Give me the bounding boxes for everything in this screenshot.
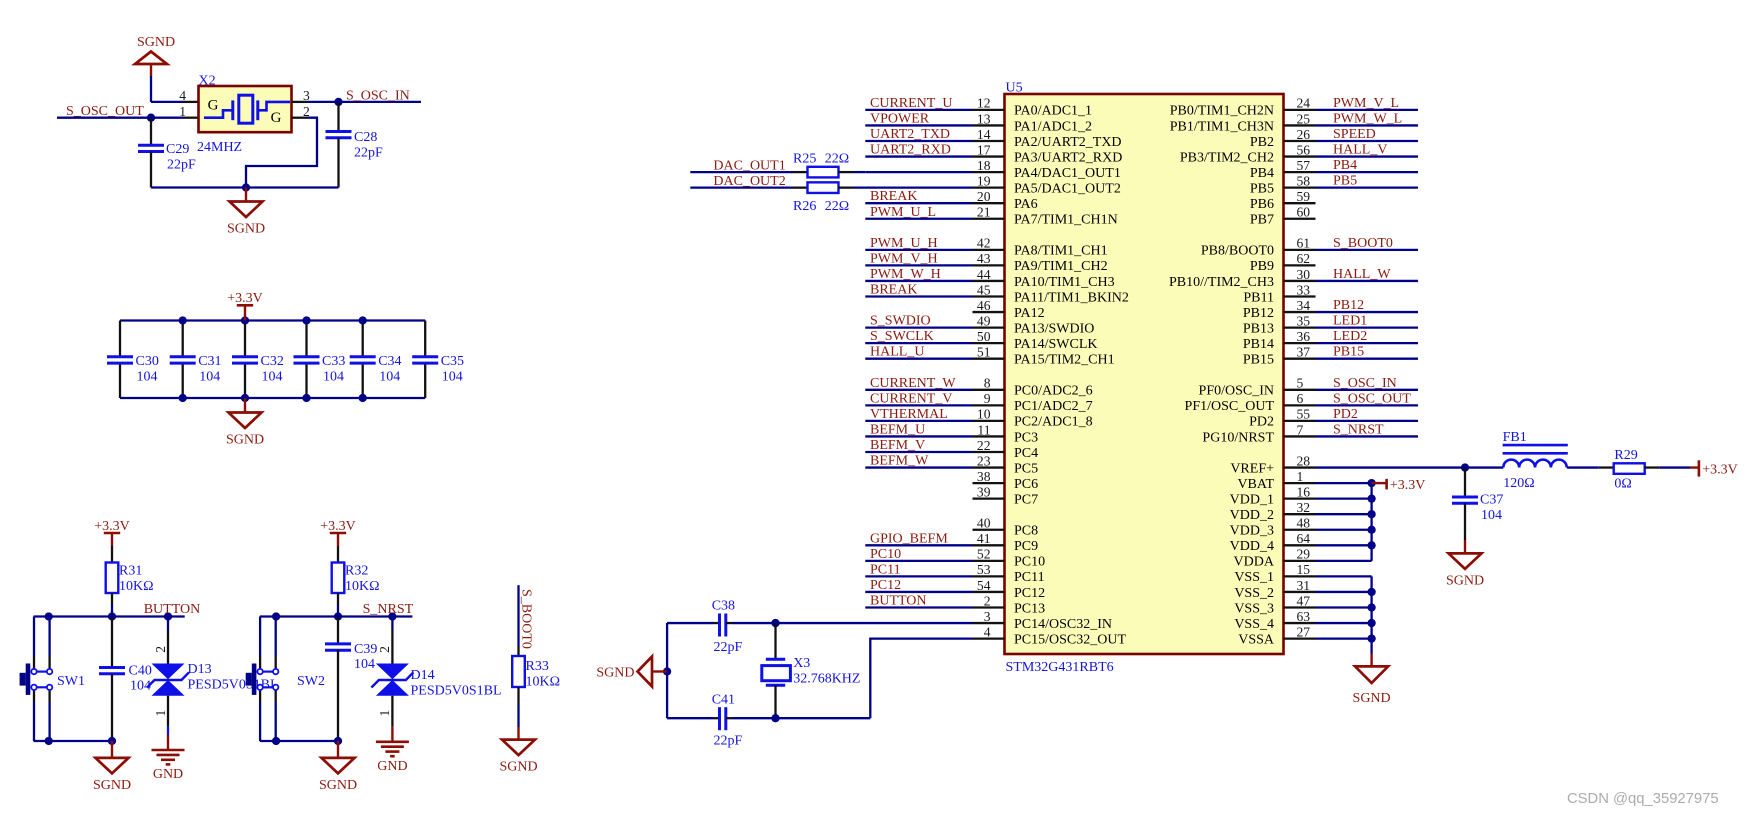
svg-text:32: 32 [1297,500,1311,515]
svg-text:HALL_V: HALL_V [1333,143,1387,158]
svg-text:PC1/ADC2_7: PC1/ADC2_7 [1014,399,1093,414]
svg-text:S_SWDIO: S_SWDIO [870,314,931,329]
svg-text:33: 33 [1297,282,1311,297]
svg-text:GND: GND [377,759,407,774]
svg-text:PF1/OSC_OUT: PF1/OSC_OUT [1185,399,1275,414]
svg-text:CURRENT_U: CURRENT_U [870,96,952,111]
svg-text:CURRENT_V: CURRENT_V [870,391,952,406]
svg-text:PC14/OSC32_IN: PC14/OSC32_IN [1014,617,1112,632]
svg-text:PC2/ADC1_8: PC2/ADC1_8 [1014,415,1093,430]
svg-text:6: 6 [1297,391,1304,406]
svg-text:CSDN @qq_35927975: CSDN @qq_35927975 [1567,791,1719,807]
svg-text:11: 11 [977,422,990,437]
svg-text:PA8/TIM1_CH1: PA8/TIM1_CH1 [1014,244,1108,259]
svg-text:PWM_U_L: PWM_U_L [870,205,936,220]
svg-text:VSS_1: VSS_1 [1234,570,1274,585]
svg-text:25: 25 [1297,111,1311,126]
svg-text:PA15/TIM2_CH1: PA15/TIM2_CH1 [1014,353,1115,368]
svg-text:PD2: PD2 [1249,415,1274,430]
svg-text:10KΩ: 10KΩ [526,674,561,689]
svg-text:D14: D14 [411,668,435,683]
svg-text:PB4: PB4 [1333,158,1357,173]
svg-text:104: 104 [354,657,375,672]
svg-text:PA9/TIM1_CH2: PA9/TIM1_CH2 [1014,259,1108,274]
svg-text:22Ω: 22Ω [825,199,849,214]
svg-text:PB7: PB7 [1250,213,1274,228]
svg-text:23: 23 [977,453,991,468]
svg-text:PC12: PC12 [1014,586,1045,601]
svg-text:51: 51 [977,345,991,360]
svg-text:PA3/UART2_RXD: PA3/UART2_RXD [1014,150,1122,165]
svg-text:BEFM_V: BEFM_V [870,438,925,453]
svg-text:C29: C29 [166,142,189,157]
svg-text:50: 50 [977,329,991,344]
svg-text:SGND: SGND [137,35,175,50]
svg-text:C39: C39 [354,642,377,657]
svg-text:PB15: PB15 [1333,345,1364,360]
svg-text:UART2_TXD: UART2_TXD [870,127,950,142]
svg-text:VPOWER: VPOWER [870,111,930,126]
svg-text:VDDA: VDDA [1234,555,1275,570]
svg-text:GND: GND [153,767,183,782]
svg-text:PC15/OSC32_OUT: PC15/OSC32_OUT [1014,632,1126,647]
svg-text:31: 31 [1297,578,1311,593]
svg-text:PA13/SWDIO: PA13/SWDIO [1014,321,1094,336]
svg-text:FB1: FB1 [1503,430,1527,445]
svg-text:PA10/TIM1_CH3: PA10/TIM1_CH3 [1014,275,1115,290]
svg-text:LED2: LED2 [1333,329,1367,344]
svg-text:58: 58 [1297,173,1311,188]
svg-text:VDD_2: VDD_2 [1230,508,1274,523]
svg-text:PB14: PB14 [1243,337,1274,352]
svg-text:PC0/ADC2_6: PC0/ADC2_6 [1014,384,1093,399]
svg-text:16: 16 [1297,484,1311,499]
svg-text:PC3: PC3 [1014,430,1038,445]
svg-text:21: 21 [977,205,991,220]
svg-text:40: 40 [977,516,991,531]
svg-text:SW1: SW1 [57,674,85,689]
svg-text:38: 38 [977,469,991,484]
svg-text:PWM_W_H: PWM_W_H [870,267,941,282]
svg-text:PC11: PC11 [870,562,901,577]
svg-text:1: 1 [1297,469,1304,484]
svg-text:VSS_4: VSS_4 [1234,617,1274,632]
svg-text:S_OSC_OUT: S_OSC_OUT [66,104,144,119]
svg-text:45: 45 [977,282,991,297]
svg-text:PA5/DAC1_OUT2: PA5/DAC1_OUT2 [1014,181,1121,196]
svg-text:PA11/TIM1_BKIN2: PA11/TIM1_BKIN2 [1014,290,1129,305]
svg-text:PC8: PC8 [1014,524,1038,539]
svg-text:PC12: PC12 [870,578,901,593]
svg-text:37: 37 [1297,345,1311,360]
svg-text:20: 20 [977,189,991,204]
svg-text:4: 4 [984,624,991,639]
svg-text:46: 46 [977,298,991,313]
svg-text:PB1/TIM1_CH3N: PB1/TIM1_CH3N [1170,119,1274,134]
svg-text:S_NRST: S_NRST [363,602,414,617]
svg-text:64: 64 [1297,531,1311,546]
svg-text:104: 104 [199,370,220,385]
svg-text:C40: C40 [129,664,152,679]
svg-text:PB5: PB5 [1333,174,1357,189]
svg-text:24MHZ: 24MHZ [197,140,242,155]
svg-text:22pF: 22pF [354,146,383,161]
svg-text:36: 36 [1297,329,1311,344]
svg-text:43: 43 [977,251,991,266]
svg-text:PB4: PB4 [1250,166,1274,181]
svg-text:C34: C34 [378,354,401,369]
svg-text:S_OSC_IN: S_OSC_IN [1333,376,1397,391]
svg-text:34: 34 [1297,298,1311,313]
svg-text:SW2: SW2 [297,674,325,689]
svg-text:VDD_1: VDD_1 [1230,492,1274,507]
svg-text:PB6: PB6 [1250,197,1274,212]
svg-text:9: 9 [984,391,991,406]
svg-text:UART2_RXD: UART2_RXD [870,143,951,158]
svg-text:C32: C32 [261,354,284,369]
svg-text:53: 53 [977,562,991,577]
svg-text:26: 26 [1297,127,1311,142]
svg-text:PWM_V_L: PWM_V_L [1333,96,1399,111]
svg-text:2: 2 [153,646,168,653]
svg-text:PD2: PD2 [1333,407,1358,422]
svg-text:S_OSC_OUT: S_OSC_OUT [1333,391,1411,406]
svg-text:104: 104 [1481,508,1502,523]
svg-text:SGND: SGND [226,433,264,448]
svg-text:PA0/ADC1_1: PA0/ADC1_1 [1014,104,1092,119]
svg-text:HALL_W: HALL_W [1333,267,1391,282]
svg-text:13: 13 [977,111,991,126]
svg-text:PWM_W_L: PWM_W_L [1333,111,1402,126]
svg-text:HALL_U: HALL_U [870,345,924,360]
svg-text:PB5: PB5 [1250,181,1274,196]
svg-text:R26: R26 [793,199,816,214]
svg-text:1: 1 [377,710,392,717]
svg-text:S_SWCLK: S_SWCLK [870,329,934,344]
svg-text:C41: C41 [712,692,735,707]
svg-text:+3.3V: +3.3V [1702,462,1738,477]
svg-text:14: 14 [977,127,991,142]
svg-text:C38: C38 [712,599,735,614]
svg-text:41: 41 [977,531,991,546]
svg-text:22pF: 22pF [714,640,743,655]
svg-text:VSSA: VSSA [1238,632,1275,647]
svg-text:49: 49 [977,313,991,328]
svg-text:X3: X3 [793,656,810,671]
svg-text:10: 10 [977,407,991,422]
svg-text:59: 59 [1297,189,1311,204]
svg-text:C28: C28 [354,130,377,145]
svg-text:VDD_4: VDD_4 [1230,539,1274,554]
svg-text:PB13: PB13 [1243,321,1274,336]
svg-text:28: 28 [1297,453,1311,468]
svg-text:PC13: PC13 [1014,601,1045,616]
svg-text:5: 5 [1297,376,1304,391]
svg-text:PB0/TIM1_CH2N: PB0/TIM1_CH2N [1170,104,1274,119]
svg-text:104: 104 [262,370,283,385]
svg-text:42: 42 [977,236,991,251]
svg-text:56: 56 [1297,142,1311,157]
svg-text:S_OSC_IN: S_OSC_IN [346,88,410,103]
svg-text:22pF: 22pF [714,733,743,748]
svg-text:22Ω: 22Ω [825,151,849,166]
svg-text:15: 15 [1297,562,1311,577]
svg-text:PB10//TIM2_CH3: PB10//TIM2_CH3 [1169,275,1274,290]
svg-text:SGND: SGND [1353,691,1391,706]
svg-text:4: 4 [179,88,186,103]
svg-text:PC4: PC4 [1014,446,1038,461]
svg-text:+3.3V: +3.3V [1390,478,1426,493]
svg-text:61: 61 [1297,236,1311,251]
svg-text:S_NRST: S_NRST [1333,422,1384,437]
svg-text:PF0/OSC_IN: PF0/OSC_IN [1199,384,1274,399]
svg-text:29: 29 [1297,547,1311,562]
svg-text:55: 55 [1297,407,1311,422]
svg-text:1: 1 [179,104,186,119]
svg-text:G: G [208,98,219,114]
svg-text:PB9: PB9 [1250,259,1274,274]
svg-text:0Ω: 0Ω [1614,476,1631,491]
svg-text:PG10/NRST: PG10/NRST [1202,430,1274,445]
svg-text:2: 2 [377,646,392,653]
svg-text:PB2: PB2 [1250,135,1274,150]
svg-text:CURRENT_W: CURRENT_W [870,376,956,391]
svg-text:PESD5V0S1BL: PESD5V0S1BL [411,683,502,698]
svg-text:PA6: PA6 [1014,197,1038,212]
svg-text:PA4/DAC1_OUT1: PA4/DAC1_OUT1 [1014,166,1121,181]
svg-text:PB15: PB15 [1243,353,1274,368]
svg-text:PWM_U_H: PWM_U_H [870,236,938,251]
svg-text:C33: C33 [322,354,345,369]
svg-text:VREF+: VREF+ [1230,461,1274,476]
svg-text:R29: R29 [1614,448,1637,463]
svg-text:57: 57 [1297,158,1311,173]
svg-text:48: 48 [1297,516,1311,531]
svg-text:104: 104 [379,370,400,385]
svg-text:PC10: PC10 [870,547,901,562]
svg-text:C37: C37 [1480,492,1503,507]
svg-text:R33: R33 [526,659,549,674]
svg-text:PC6: PC6 [1014,477,1038,492]
svg-text:10KΩ: 10KΩ [119,579,154,594]
svg-text:VSS_3: VSS_3 [1234,601,1274,616]
svg-text:VDD_3: VDD_3 [1230,524,1274,539]
svg-text:62: 62 [1297,251,1311,266]
svg-text:R25: R25 [793,151,816,166]
svg-text:104: 104 [442,370,463,385]
svg-text:BUTTON: BUTTON [870,594,927,609]
svg-text:SGND: SGND [319,778,357,793]
svg-text:STM32G431RBT6: STM32G431RBT6 [1006,660,1114,675]
svg-text:R31: R31 [119,563,142,578]
svg-text:PC5: PC5 [1014,461,1038,476]
svg-text:1: 1 [153,710,168,717]
svg-text:PA1/ADC1_2: PA1/ADC1_2 [1014,119,1092,134]
svg-text:27: 27 [1297,624,1311,639]
svg-text:22: 22 [977,438,991,453]
svg-text:47: 47 [1297,593,1311,608]
svg-text:G: G [271,110,282,126]
svg-text:C35: C35 [441,354,464,369]
svg-text:X2: X2 [199,74,216,89]
svg-text:S_BOOT0: S_BOOT0 [519,589,534,649]
svg-text:PC9: PC9 [1014,539,1038,554]
svg-text:PWM_V_H: PWM_V_H [870,251,938,266]
svg-text:BREAK: BREAK [870,283,917,298]
svg-text:SGND: SGND [1446,573,1484,588]
svg-text:SPEED: SPEED [1333,127,1376,142]
svg-text:PESD5V0S1BL: PESD5V0S1BL [188,678,279,693]
svg-text:30: 30 [1297,267,1311,282]
svg-text:60: 60 [1297,205,1311,220]
svg-text:LED1: LED1 [1333,314,1367,329]
svg-text:PB3/TIM2_CH2: PB3/TIM2_CH2 [1180,150,1274,165]
svg-text:104: 104 [137,370,158,385]
svg-text:12: 12 [977,96,991,111]
svg-text:R32: R32 [345,563,368,578]
svg-text:PC7: PC7 [1014,492,1038,507]
svg-text:SGND: SGND [596,665,634,680]
svg-text:8: 8 [984,376,991,391]
svg-text:PC11: PC11 [1014,570,1045,585]
svg-text:SGND: SGND [227,222,265,237]
svg-text:39: 39 [977,484,991,499]
svg-text:VTHERMAL: VTHERMAL [870,407,948,422]
svg-text:19: 19 [977,173,991,188]
svg-text:C30: C30 [136,354,159,369]
svg-text:54: 54 [977,578,991,593]
svg-text:17: 17 [977,142,991,157]
svg-text:S_BOOT0: S_BOOT0 [1333,236,1393,251]
svg-text:24: 24 [1297,96,1311,111]
svg-text:32.768KHZ: 32.768KHZ [793,671,860,686]
svg-text:52: 52 [977,547,991,562]
svg-text:U5: U5 [1006,81,1023,96]
svg-text:SGND: SGND [93,778,131,793]
svg-text:22pF: 22pF [167,158,196,173]
svg-text:PA14/SWCLK: PA14/SWCLK [1014,337,1098,352]
svg-text:3: 3 [984,609,991,624]
svg-text:BEFM_U: BEFM_U [870,422,925,437]
svg-text:104: 104 [323,370,344,385]
svg-text:44: 44 [977,267,991,282]
svg-text:+3.3V: +3.3V [227,291,263,306]
svg-text:VBAT: VBAT [1237,477,1274,492]
svg-text:PB8/BOOT0: PB8/BOOT0 [1201,244,1274,259]
svg-text:PB11: PB11 [1243,290,1274,305]
svg-text:2: 2 [984,593,991,608]
svg-text:PA7/TIM1_CH1N: PA7/TIM1_CH1N [1014,213,1118,228]
svg-text:C31: C31 [198,354,221,369]
svg-text:120Ω: 120Ω [1503,476,1534,491]
svg-text:63: 63 [1297,609,1311,624]
svg-text:BEFM_W: BEFM_W [870,454,929,469]
svg-text:BREAK: BREAK [870,189,917,204]
svg-text:PB12: PB12 [1243,306,1274,321]
svg-text:PC10: PC10 [1014,555,1045,570]
svg-text:35: 35 [1297,313,1311,328]
svg-text:D13: D13 [188,662,212,677]
svg-text:PA2/UART2_TXD: PA2/UART2_TXD [1014,135,1122,150]
svg-text:SGND: SGND [499,760,537,775]
svg-text:VSS_2: VSS_2 [1234,586,1274,601]
svg-text:18: 18 [977,158,991,173]
svg-text:GPIO_BEFM: GPIO_BEFM [870,531,948,546]
svg-text:DAC_OUT1: DAC_OUT1 [713,159,785,174]
svg-text:PB12: PB12 [1333,298,1364,313]
svg-text:7: 7 [1297,422,1304,437]
svg-text:10KΩ: 10KΩ [345,579,380,594]
svg-text:DAC_OUT2: DAC_OUT2 [713,174,785,189]
svg-text:PA12: PA12 [1014,306,1045,321]
svg-text:BUTTON: BUTTON [144,602,201,617]
